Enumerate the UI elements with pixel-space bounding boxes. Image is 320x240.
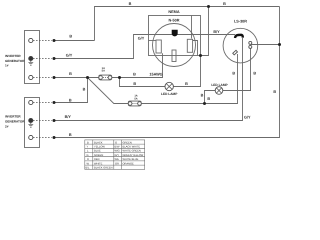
svg-text:15AWG: 15AWG — [149, 72, 162, 76]
svg-text:5A: 5A — [134, 97, 137, 100]
svg-text:W/L: W/L — [115, 158, 120, 161]
svg-text:B: B — [185, 82, 188, 86]
svg-text:B: B — [273, 90, 276, 94]
svg-text:Y: Y — [87, 146, 89, 149]
svg-text:1#: 1# — [5, 64, 9, 68]
svg-text:G/Y: G/Y — [244, 115, 251, 119]
svg-text:N-50R: N-50R — [169, 19, 180, 23]
svg-text:B: B — [207, 97, 210, 101]
svg-text:LED LAMP: LED LAMP — [211, 83, 228, 87]
svg-text:RED: RED — [94, 158, 100, 161]
svg-text:GREEN: GREEN — [123, 141, 132, 144]
svg-text:B/Y: B/Y — [65, 115, 72, 119]
svg-text:B/Y: B/Y — [213, 30, 220, 34]
svg-text:B/W: B/W — [115, 146, 120, 149]
svg-text:B: B — [69, 72, 72, 76]
svg-text:WHITE GREEN: WHITE GREEN — [123, 150, 141, 153]
svg-text:B: B — [133, 82, 136, 86]
svg-text:BLUE: BLUE — [94, 150, 101, 153]
svg-text:NEMA: NEMA — [168, 10, 179, 14]
svg-text:WHITE: WHITE — [94, 162, 103, 165]
svg-text:G/Y: G/Y — [115, 154, 120, 157]
svg-text:B: B — [129, 2, 132, 6]
svg-text:GENERATOR: GENERATOR — [5, 120, 25, 124]
svg-text:B: B — [69, 35, 72, 39]
svg-text:BLACK: BLACK — [94, 141, 103, 144]
svg-text:5A: 5A — [102, 70, 105, 73]
svg-text:GENERATOR: GENERATOR — [5, 59, 25, 63]
svg-text:R: R — [87, 158, 89, 161]
svg-text:G/Y: G/Y — [66, 53, 73, 57]
svg-text:G: G — [115, 141, 117, 144]
svg-text:INVERTER: INVERTER — [5, 115, 21, 119]
svg-text:B: B — [69, 98, 72, 102]
svg-text:BLACK WHITE: BLACK WHITE — [123, 146, 141, 149]
svg-text:ORANGE: ORANGE — [123, 162, 135, 165]
svg-text:B: B — [232, 71, 235, 75]
svg-text:2#: 2# — [5, 125, 9, 129]
svg-text:LED LAMP: LED LAMP — [161, 92, 178, 96]
svg-text:INVERTER: INVERTER — [5, 54, 21, 58]
svg-text:B: B — [201, 94, 204, 98]
svg-text:B: B — [133, 72, 136, 76]
svg-text:G: G — [87, 154, 89, 157]
svg-text:GREEN YELLOW: GREEN YELLOW — [123, 154, 144, 157]
svg-text:B: B — [69, 133, 72, 137]
svg-text:B/L: B/L — [86, 167, 90, 170]
svg-text:G/Y: G/Y — [138, 37, 145, 41]
svg-text:WHITE BLUE: WHITE BLUE — [123, 158, 139, 161]
svg-text:GREEN: GREEN — [94, 154, 103, 157]
svg-text:B: B — [83, 88, 86, 92]
svg-text:B: B — [253, 72, 256, 76]
svg-text:YELLOW: YELLOW — [94, 146, 105, 149]
svg-text:LS-30R: LS-30R — [234, 20, 247, 24]
svg-text:W/G: W/G — [115, 150, 120, 153]
svg-text:B: B — [223, 2, 226, 6]
svg-text:BLACK GREEN: BLACK GREEN — [94, 167, 113, 170]
svg-text:B: B — [87, 141, 89, 144]
svg-text:OR: OR — [115, 162, 119, 165]
